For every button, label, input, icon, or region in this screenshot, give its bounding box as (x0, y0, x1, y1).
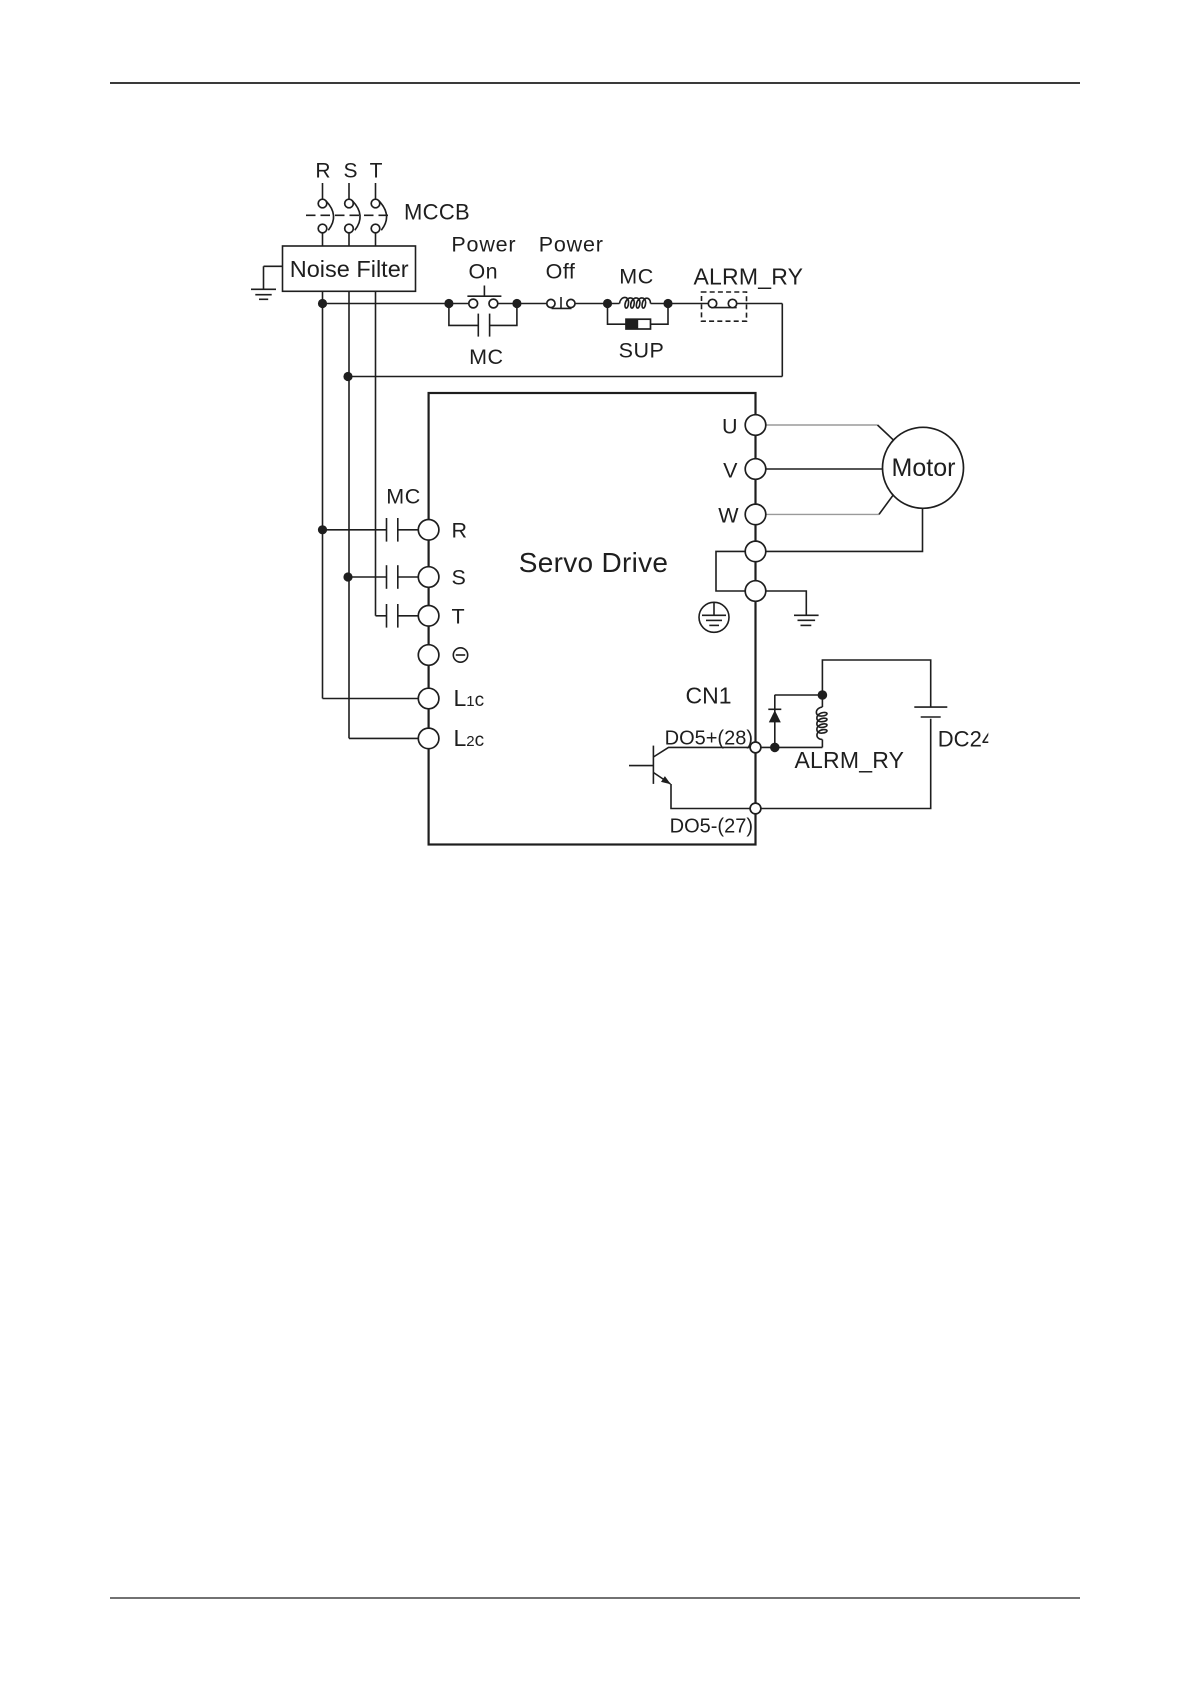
svg-text:S: S (452, 566, 466, 590)
svg-text:W: W (718, 504, 739, 528)
svg-text:CN1: CN1 (686, 683, 732, 709)
svg-text:MC: MC (386, 485, 420, 509)
svg-text:T: T (452, 605, 465, 629)
svg-text:DO5+(28): DO5+(28) (665, 727, 753, 749)
svg-text:MC: MC (619, 265, 653, 289)
svg-text:DC2: DC2 (938, 726, 982, 751)
svg-text:R: R (452, 519, 468, 543)
svg-text:MCCB: MCCB (404, 200, 470, 225)
svg-text:S: S (343, 160, 357, 183)
svg-text:T: T (370, 160, 383, 183)
svg-text:Motor: Motor (892, 454, 956, 482)
svg-text:V: V (723, 459, 738, 483)
svg-text:R: R (315, 160, 330, 183)
svg-text:U: U (722, 415, 738, 439)
svg-text:MC: MC (469, 345, 503, 369)
svg-text:On: On (468, 259, 498, 283)
svg-text:DO5-(27): DO5-(27) (670, 816, 753, 838)
svg-text:ALRM_RY: ALRM_RY (694, 264, 804, 290)
svg-text:Power: Power (451, 233, 516, 257)
svg-text:ALRM_RY: ALRM_RY (795, 747, 905, 773)
svg-text:Servo Drive: Servo Drive (519, 547, 669, 578)
svg-text:Power: Power (539, 233, 604, 257)
svg-text:Noise Filter: Noise Filter (290, 256, 409, 282)
svg-text:SUP: SUP (619, 339, 665, 363)
svg-text:Off: Off (546, 259, 576, 283)
